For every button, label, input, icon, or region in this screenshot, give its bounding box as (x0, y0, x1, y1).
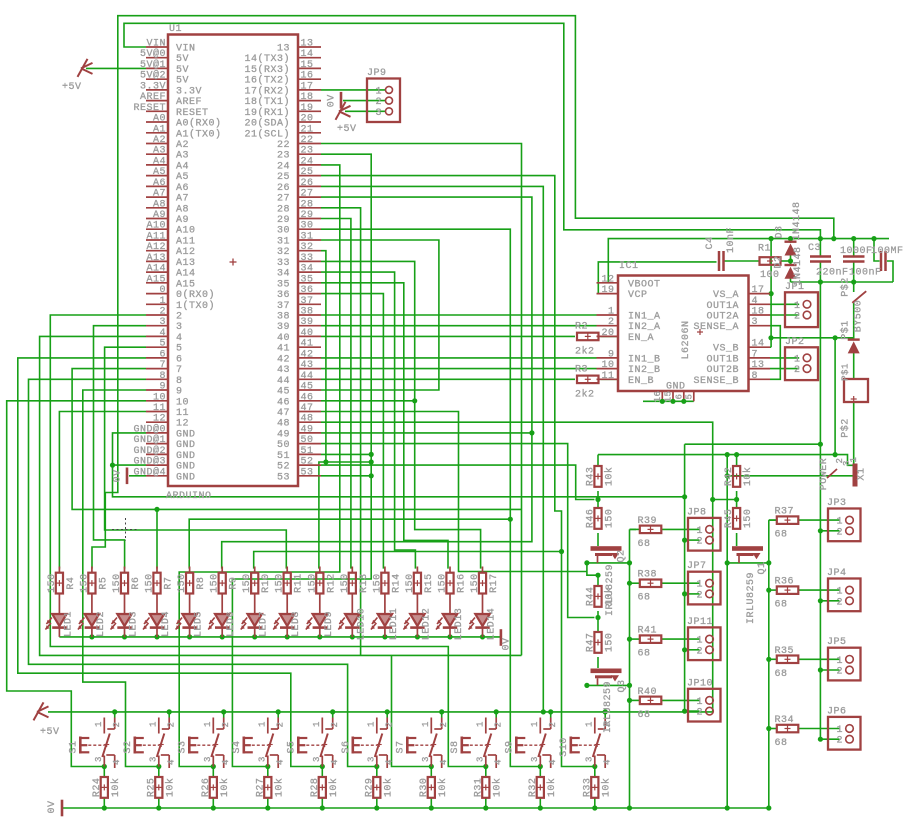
svg-text:R25: R25 (146, 778, 157, 798)
svg-text:+5V: +5V (40, 727, 60, 738)
svg-text:1: 1 (585, 721, 595, 727)
svg-text:5V: 5V (176, 65, 189, 76)
svg-text:21(SCL): 21(SCL) (244, 128, 290, 140)
svg-text:R12: R12 (326, 573, 337, 593)
svg-text:2: 2 (696, 590, 703, 601)
svg-text:24: 24 (277, 161, 290, 172)
svg-text:5: 5 (176, 344, 183, 355)
svg-text:GND: GND (176, 472, 196, 483)
svg-text:43: 43 (277, 365, 290, 376)
svg-text:2: 2 (696, 537, 703, 548)
svg-text:68: 68 (775, 530, 788, 541)
svg-text:46: 46 (277, 397, 290, 408)
svg-text:VIN: VIN (146, 39, 166, 50)
svg-text:15(RX3): 15(RX3) (244, 64, 290, 76)
svg-text:2: 2 (493, 722, 503, 728)
svg-text:0(RX0): 0(RX0) (176, 289, 215, 301)
svg-text:1: 1 (367, 721, 377, 727)
svg-text:38: 38 (301, 307, 314, 318)
svg-text:JP7: JP7 (687, 561, 707, 572)
svg-text:13: 13 (752, 360, 765, 371)
svg-text:R14: R14 (391, 573, 402, 593)
svg-text:JP6: JP6 (827, 706, 847, 717)
svg-text:2: 2 (176, 312, 183, 323)
svg-text:JP8: JP8 (687, 507, 707, 518)
svg-text:R32: R32 (528, 778, 539, 798)
svg-text:S6: S6 (341, 740, 352, 753)
svg-text:2: 2 (166, 722, 176, 728)
svg-text:150: 150 (210, 573, 221, 593)
svg-text:11: 11 (601, 371, 614, 382)
svg-text:LED5: LED5 (194, 611, 205, 637)
svg-text:10k: 10k (164, 778, 176, 798)
svg-text:2: 2 (696, 646, 703, 657)
svg-text:1: 1 (794, 301, 801, 312)
svg-text:34: 34 (277, 269, 290, 280)
svg-text:R30: R30 (419, 778, 430, 798)
svg-text:LED6: LED6 (226, 611, 237, 637)
svg-text:51: 51 (301, 446, 314, 457)
svg-text:3: 3 (752, 317, 759, 328)
svg-text:R15: R15 (424, 573, 435, 593)
svg-text:GND: GND (176, 451, 196, 462)
svg-text:2: 2 (375, 97, 382, 108)
svg-text:5V: 5V (176, 76, 189, 87)
svg-text:C4: C4 (705, 236, 716, 249)
svg-text:21: 21 (301, 124, 314, 135)
svg-text:48: 48 (301, 414, 314, 425)
svg-text:48: 48 (277, 419, 290, 430)
svg-text:2: 2 (330, 722, 340, 728)
svg-text:1: 1 (836, 656, 843, 667)
svg-text:68: 68 (775, 669, 788, 680)
svg-text:5V@1: 5V@1 (140, 59, 166, 71)
svg-text:4: 4 (384, 759, 394, 765)
svg-text:1: 1 (836, 587, 843, 598)
svg-text:U1: U1 (169, 24, 182, 35)
svg-text:EN_B: EN_B (628, 376, 654, 387)
svg-text:A10: A10 (176, 226, 196, 237)
svg-text:R31: R31 (473, 778, 484, 798)
svg-text:R24: R24 (92, 778, 103, 798)
svg-text:4: 4 (602, 759, 612, 765)
svg-text:6: 6 (176, 354, 183, 365)
svg-text:C3: C3 (808, 243, 821, 254)
svg-text:A1: A1 (153, 124, 166, 135)
svg-text:42: 42 (301, 349, 314, 360)
svg-text:JP3: JP3 (827, 498, 847, 509)
svg-text:JP4: JP4 (827, 568, 847, 579)
svg-text:50: 50 (277, 440, 290, 451)
svg-text:GND@4: GND@4 (133, 466, 166, 478)
svg-text:150: 150 (307, 573, 318, 593)
svg-text:0V: 0V (113, 469, 124, 482)
svg-text:1: 1 (94, 721, 104, 727)
svg-text:EN_A: EN_A (628, 333, 654, 344)
svg-text:34: 34 (301, 264, 314, 275)
svg-text:4: 4 (275, 759, 285, 765)
svg-text:1: 1 (312, 721, 322, 727)
svg-text:VS_A: VS_A (713, 290, 739, 301)
svg-text:R34: R34 (775, 715, 795, 726)
svg-text:IRLU8259: IRLU8259 (603, 681, 614, 733)
svg-text:+5V: +5V (62, 82, 82, 93)
svg-text:R11: R11 (294, 573, 305, 593)
svg-text:3: 3 (203, 756, 213, 762)
svg-text:10k: 10k (604, 467, 616, 487)
svg-text:VIN: VIN (176, 44, 196, 55)
svg-text:4: 4 (330, 759, 340, 765)
svg-text:1: 1 (608, 307, 615, 318)
svg-text:A4: A4 (176, 161, 189, 172)
svg-text:LED10: LED10 (356, 608, 367, 641)
svg-text:18(TX1): 18(TX1) (244, 96, 290, 108)
svg-text:41: 41 (301, 339, 314, 350)
svg-text:4: 4 (493, 759, 503, 765)
svg-text:R44: R44 (586, 587, 597, 607)
svg-text:LED12: LED12 (421, 608, 432, 641)
svg-text:10k: 10k (491, 778, 503, 798)
svg-text:S4: S4 (232, 740, 243, 753)
svg-text:A4: A4 (153, 156, 166, 167)
svg-text:JP5: JP5 (827, 637, 847, 648)
svg-text:AREF: AREF (140, 92, 166, 103)
svg-text:+5V: +5V (337, 124, 357, 135)
svg-text:17(RX2): 17(RX2) (244, 85, 290, 97)
svg-text:3.3V: 3.3V (176, 86, 202, 97)
svg-text:2k2: 2k2 (575, 388, 595, 400)
svg-text:1: 1 (696, 636, 703, 647)
svg-text:GND: GND (176, 462, 196, 473)
svg-text:49: 49 (277, 429, 290, 440)
svg-text:10k: 10k (382, 778, 394, 798)
svg-text:JP2: JP2 (785, 337, 805, 348)
svg-text:A11: A11 (146, 232, 166, 243)
svg-text:40: 40 (301, 328, 314, 339)
svg-text:A15: A15 (146, 274, 166, 285)
svg-text:4: 4 (752, 296, 759, 307)
svg-text:A9: A9 (153, 210, 166, 221)
svg-text:33: 33 (301, 253, 314, 264)
svg-text:68: 68 (638, 649, 651, 660)
svg-text:6: 6 (159, 349, 166, 360)
svg-text:LED9: LED9 (324, 611, 335, 637)
svg-text:VCP: VCP (628, 290, 648, 301)
svg-text:R29: R29 (364, 778, 375, 798)
svg-text:IC1: IC1 (619, 261, 639, 272)
svg-text:3: 3 (476, 756, 486, 762)
svg-text:1(TX0): 1(TX0) (176, 300, 215, 312)
svg-text:R46: R46 (586, 509, 597, 529)
svg-text:41: 41 (277, 344, 290, 355)
svg-text:POWER: POWER (819, 458, 830, 491)
svg-text:A7: A7 (153, 189, 166, 200)
svg-text:10: 10 (601, 360, 614, 371)
svg-text:14(TX3): 14(TX3) (244, 53, 290, 65)
svg-text:OUT1B: OUT1B (706, 354, 739, 365)
svg-text:19: 19 (601, 285, 614, 296)
svg-text:17: 17 (752, 285, 765, 296)
svg-text:ARDUINO: ARDUINO (166, 491, 212, 502)
svg-text:S10: S10 (559, 737, 570, 757)
svg-text:29: 29 (301, 210, 314, 221)
svg-text:A2: A2 (176, 140, 189, 151)
svg-text:8: 8 (159, 371, 166, 382)
svg-text:23: 23 (277, 151, 290, 162)
svg-text:22: 22 (277, 140, 290, 151)
svg-text:2: 2 (439, 722, 449, 728)
svg-text:0V: 0V (47, 800, 58, 813)
svg-text:R5: R5 (98, 577, 109, 590)
svg-text:R39: R39 (638, 516, 658, 527)
svg-text:A3: A3 (153, 146, 166, 157)
svg-text:68: 68 (638, 593, 651, 604)
svg-text:10: 10 (176, 397, 189, 408)
svg-text:27: 27 (301, 189, 314, 200)
svg-text:A5: A5 (153, 167, 166, 178)
svg-text:35: 35 (301, 274, 314, 285)
svg-text:1: 1 (836, 725, 843, 736)
svg-text:28: 28 (301, 199, 314, 210)
svg-text:31: 31 (277, 237, 290, 248)
svg-text:47: 47 (277, 408, 290, 419)
svg-text:2: 2 (696, 708, 703, 719)
svg-text:R6: R6 (131, 577, 142, 590)
svg-text:30: 30 (277, 226, 290, 237)
svg-text:A10: A10 (146, 221, 166, 232)
svg-text:150: 150 (340, 573, 351, 593)
svg-text:26: 26 (301, 178, 314, 189)
svg-text:2: 2 (159, 307, 166, 318)
svg-text:Q2: Q2 (617, 549, 628, 562)
svg-text:D2: D2 (774, 255, 785, 268)
svg-text:11: 11 (176, 408, 189, 419)
svg-text:8: 8 (752, 371, 759, 382)
svg-text:42: 42 (277, 354, 290, 365)
svg-text:A5: A5 (176, 172, 189, 183)
svg-text:2: 2 (836, 527, 843, 538)
svg-text:3.3V: 3.3V (140, 81, 166, 92)
svg-text:P$2: P$2 (840, 277, 852, 297)
svg-text:150: 150 (242, 573, 253, 593)
svg-text:28: 28 (277, 204, 290, 215)
svg-text:150: 150 (605, 509, 616, 529)
svg-text:S1: S1 (68, 740, 79, 753)
svg-text:46: 46 (301, 392, 314, 403)
svg-text:R27: R27 (255, 778, 266, 798)
svg-text:2: 2 (221, 722, 231, 728)
svg-text:6: 6 (674, 394, 684, 400)
svg-text:3: 3 (159, 317, 166, 328)
svg-text:LED2: LED2 (96, 611, 107, 637)
svg-text:1: 1 (794, 354, 801, 365)
svg-text:LED1: LED1 (63, 611, 74, 637)
svg-text:R42: R42 (724, 467, 735, 487)
svg-text:12: 12 (153, 414, 166, 425)
svg-text:150: 150 (470, 573, 481, 593)
svg-text:35: 35 (277, 279, 290, 290)
svg-text:P$2: P$2 (840, 418, 852, 438)
svg-text:A12: A12 (146, 242, 166, 253)
svg-text:44: 44 (277, 376, 290, 387)
svg-text:150: 150 (438, 573, 449, 593)
svg-text:RESET: RESET (176, 108, 209, 119)
svg-text:10k: 10k (437, 778, 449, 798)
svg-text:A6: A6 (153, 178, 166, 189)
svg-text:0: 0 (159, 285, 166, 296)
svg-text:LED3: LED3 (129, 611, 140, 637)
svg-text:53: 53 (301, 467, 314, 478)
svg-text:53: 53 (277, 472, 290, 483)
svg-text:P$1: P$1 (840, 320, 852, 340)
svg-text:1: 1 (421, 721, 431, 727)
svg-text:100nF: 100nF (849, 268, 882, 279)
svg-text:10k: 10k (110, 778, 122, 798)
svg-text:18: 18 (301, 92, 314, 103)
svg-text:A11: A11 (176, 237, 196, 248)
svg-text:2: 2 (836, 667, 843, 678)
svg-text:9: 9 (159, 382, 166, 393)
svg-text:23: 23 (301, 146, 314, 157)
svg-text:19(RX1): 19(RX1) (244, 107, 290, 119)
svg-text:LED4: LED4 (161, 611, 172, 637)
svg-text:14: 14 (752, 339, 765, 350)
svg-text:R28: R28 (310, 778, 321, 798)
svg-text:1: 1 (696, 580, 703, 591)
svg-text:R43: R43 (586, 467, 597, 487)
svg-text:R8: R8 (196, 577, 207, 590)
svg-text:32: 32 (277, 247, 290, 258)
svg-text:10k: 10k (600, 778, 612, 798)
svg-text:40: 40 (277, 333, 290, 344)
svg-text:LED8: LED8 (291, 611, 302, 637)
svg-text:A3: A3 (176, 151, 189, 162)
svg-text:AREF: AREF (176, 97, 202, 108)
svg-text:5: 5 (684, 394, 694, 400)
svg-text:LED13: LED13 (454, 608, 465, 641)
svg-text:1: 1 (696, 697, 703, 708)
svg-text:52: 52 (277, 462, 290, 473)
svg-text:12: 12 (176, 419, 189, 430)
svg-text:36: 36 (301, 285, 314, 296)
svg-text:A14: A14 (146, 264, 166, 275)
svg-text:47: 47 (301, 403, 314, 414)
svg-text:OUT1A: OUT1A (706, 301, 739, 312)
svg-text:31: 31 (301, 232, 314, 243)
svg-text:S2: S2 (123, 740, 134, 753)
svg-text:150: 150 (79, 573, 90, 593)
svg-text:A13: A13 (176, 258, 196, 269)
svg-text:IN2_B: IN2_B (628, 365, 661, 376)
svg-text:S8: S8 (450, 740, 461, 753)
svg-text:150: 150 (405, 573, 416, 593)
svg-text:100: 100 (760, 270, 780, 281)
svg-text:R33: R33 (582, 778, 593, 798)
svg-text:2: 2 (608, 317, 615, 328)
svg-text:3: 3 (585, 756, 595, 762)
svg-text:GND@3: GND@3 (133, 456, 166, 468)
svg-text:RESET: RESET (133, 103, 166, 114)
svg-text:12: 12 (601, 274, 614, 285)
svg-text:R10: R10 (261, 573, 272, 593)
svg-text:10nF: 10nF (726, 227, 737, 253)
svg-text:0V: 0V (327, 94, 338, 107)
svg-text:150: 150 (743, 509, 754, 529)
svg-text:A8: A8 (153, 199, 166, 210)
svg-text:LED11: LED11 (389, 608, 400, 641)
svg-text:IRLU8259: IRLU8259 (605, 564, 616, 616)
svg-text:A0(RX0): A0(RX0) (176, 118, 222, 130)
svg-text:1: 1 (696, 526, 703, 537)
svg-text:R3: R3 (575, 364, 588, 375)
svg-text:R13: R13 (359, 573, 370, 593)
svg-text:R40: R40 (638, 687, 658, 698)
svg-text:3: 3 (530, 756, 540, 762)
svg-text:45: 45 (277, 387, 290, 398)
svg-text:10k: 10k (219, 778, 231, 798)
svg-text:IN2_A: IN2_A (628, 322, 661, 333)
svg-text:220nF: 220nF (816, 268, 849, 279)
svg-text:A2: A2 (153, 135, 166, 146)
svg-text:A9: A9 (176, 215, 189, 226)
svg-text:150: 150 (112, 573, 123, 593)
svg-text:1: 1 (375, 86, 382, 97)
svg-text:150: 150 (177, 573, 188, 593)
svg-text:150: 150 (372, 573, 383, 593)
svg-text:A1(TX0): A1(TX0) (176, 128, 222, 140)
svg-text:2: 2 (794, 365, 801, 376)
svg-text:22: 22 (301, 135, 314, 146)
svg-text:R35: R35 (775, 646, 795, 657)
svg-text:A15: A15 (176, 279, 196, 290)
svg-text:27: 27 (277, 194, 290, 205)
svg-text:10k: 10k (273, 778, 285, 798)
svg-text:JP11: JP11 (687, 617, 713, 628)
svg-text:R17: R17 (489, 573, 500, 593)
svg-text:4: 4 (112, 759, 122, 765)
svg-text:R26: R26 (201, 778, 212, 798)
svg-text:8: 8 (176, 376, 183, 387)
svg-text:2: 2 (112, 722, 122, 728)
svg-text:20: 20 (601, 328, 614, 339)
svg-text:GND@1: GND@1 (133, 434, 166, 446)
svg-text:37: 37 (277, 301, 290, 312)
svg-text:13: 13 (277, 44, 290, 55)
svg-text:11: 11 (153, 403, 166, 414)
svg-text:A14: A14 (176, 269, 196, 280)
svg-text:150: 150 (145, 573, 156, 593)
svg-text:30: 30 (301, 221, 314, 232)
svg-text:OUT2B: OUT2B (706, 365, 739, 376)
svg-text:2: 2 (794, 312, 801, 323)
svg-text:1: 1 (530, 721, 540, 727)
svg-text:3: 3 (375, 108, 382, 119)
svg-text:IN1_A: IN1_A (628, 312, 661, 323)
svg-text:68: 68 (638, 710, 651, 721)
svg-text:7: 7 (176, 365, 183, 376)
svg-text:25: 25 (301, 167, 314, 178)
svg-text:20: 20 (301, 114, 314, 125)
svg-text:100MF: 100MF (871, 246, 904, 257)
svg-text:R37: R37 (775, 507, 795, 518)
svg-text:R2: R2 (575, 321, 588, 332)
svg-text:R16: R16 (457, 573, 468, 593)
svg-text:10: 10 (153, 392, 166, 403)
svg-text:A8: A8 (176, 204, 189, 215)
svg-text:IN1_B: IN1_B (628, 354, 661, 365)
svg-text:5V@0: 5V@0 (140, 48, 166, 60)
svg-text:2: 2 (836, 597, 843, 608)
